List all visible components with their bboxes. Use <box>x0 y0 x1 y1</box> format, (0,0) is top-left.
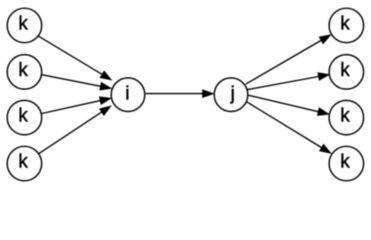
svg-text:k: k <box>340 151 350 172</box>
svg-text:i: i <box>125 83 129 104</box>
svg-text:k: k <box>340 60 350 81</box>
svg-text:k: k <box>340 13 350 34</box>
svg-text:j: j <box>230 83 235 104</box>
svg-text:k: k <box>18 13 28 34</box>
svg-text:k: k <box>340 106 350 127</box>
svg-text:k: k <box>18 60 28 81</box>
svg-text:k: k <box>18 106 28 127</box>
svg-text:k: k <box>18 151 28 172</box>
